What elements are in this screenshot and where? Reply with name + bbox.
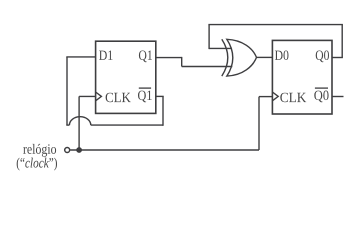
wire Q1bar-to-D1 feedback left vertical bbox=[66, 57, 68, 125]
wire clock to U1 CLK horizontal bbox=[79, 95, 96, 97]
wire crossover hop over clock wire bbox=[69, 117, 90, 125]
wire clock vertical to U2 bbox=[258, 97, 260, 150]
label relogio bbox=[23, 144, 56, 157]
wire feedback top right vertical bbox=[341, 25, 343, 58]
junction dot clock node bbox=[76, 147, 82, 153]
overline of Q0bar bbox=[315, 87, 328, 89]
wire xor top input bbox=[209, 47, 232, 49]
wire feedback top left vertical bbox=[208, 25, 210, 49]
pin label Q0 bbox=[316, 50, 329, 62]
flip-flop U1 box bbox=[96, 41, 156, 113]
pin label CLK U2 bbox=[280, 93, 306, 103]
wire Q0 output stub bbox=[332, 57, 343, 59]
wire xor bottom input bbox=[182, 66, 233, 68]
xor gate U3 input arc bbox=[222, 39, 228, 76]
pin label Q1-bar bbox=[138, 91, 152, 103]
clock edge triangle U1 bbox=[96, 92, 102, 101]
wire Q1 output horizontal bbox=[156, 57, 182, 59]
clock edge triangle U2 bbox=[272, 92, 278, 101]
wire xor output to D0 bbox=[257, 56, 273, 58]
pin label D0 bbox=[275, 50, 289, 60]
wire clock main horizontal bbox=[70, 149, 259, 151]
wire feedback top horizontal bbox=[208, 24, 343, 26]
wire Q1 jog vertical bbox=[181, 57, 183, 67]
wire feedback stub left of hop bbox=[66, 124, 69, 126]
wire feedback right vertical bbox=[162, 96, 164, 125]
wire Q1bar output stub bbox=[156, 95, 164, 97]
xor gate U3 body bbox=[227, 39, 257, 76]
pin label CLK U1 bbox=[106, 93, 131, 103]
wire D1 input horizontal bbox=[66, 56, 95, 58]
wire clock to U2 CLK horizontal bbox=[259, 96, 272, 98]
pin label Q0-bar bbox=[314, 91, 328, 103]
overline of Q1bar bbox=[139, 87, 151, 89]
pin label Q1 bbox=[139, 51, 152, 63]
pin label D1 bbox=[99, 51, 112, 60]
flip-flop U2 box bbox=[272, 40, 332, 114]
wire feedback bottom horizontal bbox=[91, 124, 163, 126]
wire Q0bar output stub bbox=[332, 96, 344, 98]
clock input terminal bbox=[65, 148, 70, 153]
label clock bbox=[17, 158, 57, 171]
wire clock vertical to U1 bbox=[78, 96, 80, 150]
